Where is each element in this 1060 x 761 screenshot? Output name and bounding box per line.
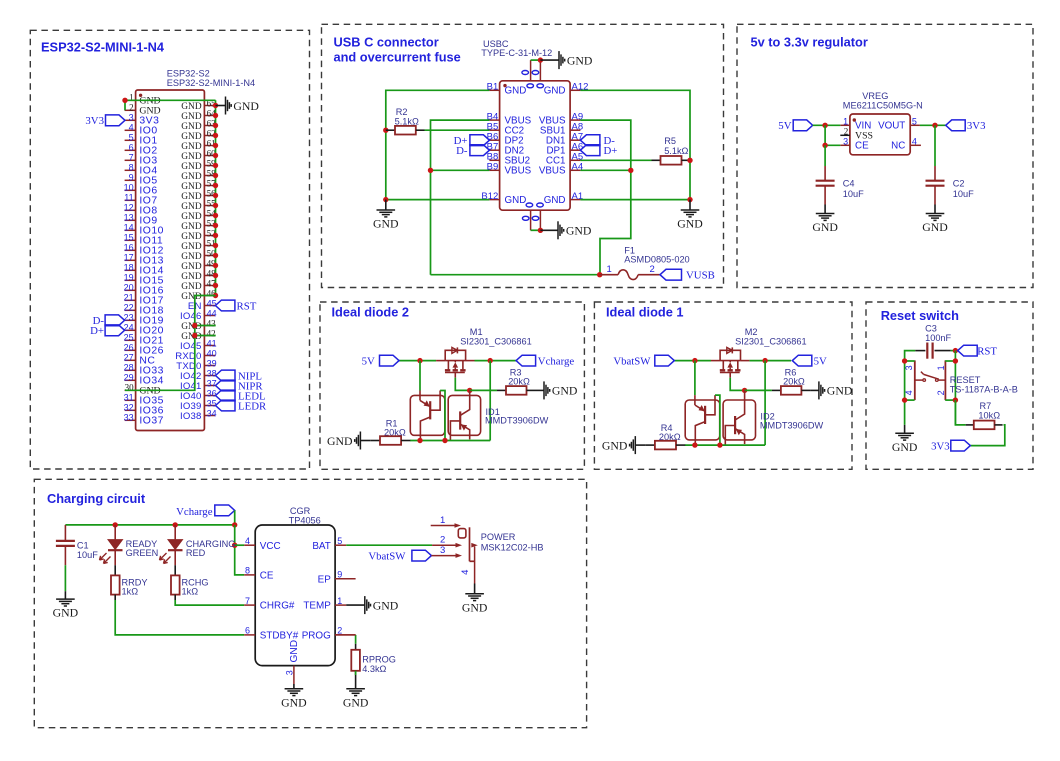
transistor Q left PNP [694,395,696,405]
ESP32 pin 12 IO8 [125,209,136,211]
svg-text:GND: GND [181,122,202,132]
svg-text:32: 32 [124,403,134,413]
net flag NIPR at pin37 [216,380,236,391]
ESP32 pin 56 GND [204,195,215,197]
svg-text:GND: GND [181,242,202,252]
svg-text:ASMD0805-020: ASMD0805-020 [624,255,689,265]
wire C3 left to left rail [905,351,916,425]
power flag 5V ideal diode 2 [380,355,400,366]
junction GND pin 64 [213,113,218,118]
USB shield pin top [530,60,532,81]
ESP32 pin 10 IO6 [125,189,136,191]
svg-text:Ideal diode 1: Ideal diode 1 [606,305,684,320]
net flag Vcharge ideal diode 2 [516,355,536,366]
ESP32 pin 57 GND [204,185,215,187]
svg-text:10uF: 10uF [77,550,98,560]
svg-text:2: 2 [129,103,134,113]
ground symbol under switch [474,584,476,594]
svg-text:4: 4 [912,136,917,146]
svg-text:38: 38 [207,369,217,379]
junction GND pin 62 [213,133,218,138]
svg-text:D+: D+ [604,145,618,157]
svg-text:8: 8 [129,163,134,173]
svg-text:39: 39 [207,359,217,369]
svg-text:GND: GND [462,600,488,614]
svg-text:40: 40 [207,349,217,359]
svg-text:5: 5 [129,133,134,143]
ESP32 pin 42 GND [204,335,215,337]
wire B1 to left GND rail [386,90,490,199]
ESP32 pin 21 IO17 [125,299,136,301]
net flag D- at pin23 [105,315,125,326]
svg-text:ESP32-S2-MINI-1-N4: ESP32-S2-MINI-1-N4 [167,78,255,88]
svg-text:7: 7 [129,153,134,163]
svg-text:5V: 5V [814,356,827,368]
ESP32 pin 63 GND [204,125,215,127]
resistor R2 body [386,129,395,131]
svg-text:GND: GND [343,695,369,709]
svg-text:IO37: IO37 [139,416,164,427]
svg-text:GND: GND [181,182,202,192]
svg-text:9: 9 [129,173,134,183]
junction VIN [822,123,827,128]
junction left rail B12 [383,197,388,202]
wire drain rail [749,360,791,362]
svg-text:44: 44 [207,309,217,319]
wire A5 CC1 to R5 [580,159,651,161]
svg-text:GND: GND [281,695,307,709]
svg-text:22: 22 [124,303,134,313]
net flag D+ at B6 [470,135,490,146]
junction GND pin 47 [213,283,218,288]
svg-text:GND: GND [181,192,202,202]
ESP32 pin 34 IO38 [204,415,215,417]
power flag 5V regulator input [793,120,813,131]
wire gate to R3 [470,389,497,391]
svg-text:29: 29 [124,373,134,383]
net flag NIPL at pin38 [216,370,236,381]
svg-text:3V3: 3V3 [967,120,986,132]
svg-text:RST: RST [237,300,257,312]
wire 5V to VIN [813,124,841,126]
svg-text:3: 3 [129,113,134,123]
ESP32 pin 8 IO4 [125,169,136,171]
svg-text:GND: GND [566,224,592,238]
ground symbol R3 [536,389,545,391]
svg-text:5v to 3.3v regulator: 5v to 3.3v regulator [751,35,868,50]
wire VBUS rails to fuse F1 [431,274,600,276]
junction shield top [538,57,543,62]
ESP32 pin 30 GND [125,389,136,391]
USB pin B5 CC2 [489,129,499,131]
wire gate to R6 [745,389,772,391]
svg-text:TS-1187A-B-A-B: TS-1187A-B-A-B [950,385,1018,395]
svg-text:4: 4 [904,390,914,395]
wire PROG to RPROG [355,635,357,644]
svg-text:1kΩ: 1kΩ [182,587,199,597]
svg-text:GREEN: GREEN [126,548,159,558]
junction gate node [742,388,747,393]
ESP32 pin 40 RXD0 [204,355,215,357]
wire C1 to GND [64,565,66,591]
svg-text:TP4056: TP4056 [289,516,321,526]
ESP32 pin 19 IO15 [125,279,136,281]
svg-text:Vcharge: Vcharge [538,356,575,368]
junction GND pin 48 [213,273,218,278]
wire A1 to right GND rail [580,199,690,201]
transistor Q right PNP [460,390,470,415]
junction R5 to GND rail [687,158,692,163]
wire GND rail to inner column [125,296,216,391]
ground symbol USB left rail [385,200,387,210]
TP4056 pin 5 BAT [335,544,346,546]
USB pin A9 VBUS [570,119,580,121]
power flag 3V3 at pin3 [106,115,126,126]
svg-text:GND: GND [373,217,399,231]
ESP32 pin 46 GND [204,295,215,297]
junction rail LED2 [173,522,178,527]
svg-text:4: 4 [245,536,250,546]
svg-text:USB C connector: USB C connector [334,35,439,50]
svg-text:34: 34 [207,409,217,419]
wire left base to mid rail [715,395,720,445]
TP4056 pin 7 CHRG# [244,604,255,606]
svg-text:GND: GND [567,53,593,67]
ESP32 pin 55 GND [204,205,215,207]
ESP32 pin 17 IO13 [125,259,136,261]
svg-text:C3: C3 [925,324,937,334]
svg-text:GND: GND [373,598,399,612]
svg-text:4.3kΩ: 4.3kΩ [362,664,386,674]
svg-text:and overcurrent fuse: and overcurrent fuse [334,50,461,65]
svg-text:15: 15 [124,233,134,243]
junction right VBUS rail A4 [628,168,633,173]
USB pin A8 SBU1 [570,129,580,131]
ESP32 pin 3 3V3 [125,119,136,121]
ESP32 pin 41 IO45 [204,345,215,347]
ESP32 pin 28 IO33 [125,369,136,371]
svg-text:GND: GND [181,172,202,182]
svg-text:ESP32-S2-MINI-1-N4: ESP32-S2-MINI-1-N4 [41,40,165,55]
ESP32 pin 14 IO10 [125,229,136,231]
svg-text:MMDT3906DW: MMDT3906DW [485,416,549,426]
USB pin A12 GND [570,89,580,91]
regulator pin 3 CE [840,144,850,146]
svg-text:GND: GND [233,99,259,113]
svg-text:2: 2 [844,126,849,136]
transistor Q left PNP [419,391,421,401]
wire pin1-pin2 GND tie [125,100,216,110]
switch body [469,527,471,561]
svg-text:45: 45 [207,299,217,309]
svg-text:GND: GND [602,438,628,452]
ESP32 pin 24 IO20 [125,329,136,331]
ground symbol USB shield bottom [540,229,558,231]
wire stub pin42 [195,335,216,337]
svg-text:31: 31 [124,393,134,403]
ground symbol under RPROG [355,679,357,689]
ESP32 pin 54 GND [204,215,215,217]
ESP32 pin 53 GND [204,225,215,227]
ESP32 pin 26 IO26 [125,349,136,351]
svg-text:RESET: RESET [950,375,981,385]
wire source rail [399,360,436,362]
svg-text:100nF: 100nF [925,333,951,343]
svg-text:VUSB: VUSB [686,270,715,282]
section box Reset switch [866,302,1033,469]
ESP32 pin 22 IO18 [125,309,136,311]
junction left VBUS rail B9 [428,168,433,173]
junction GND pin 50 [213,253,218,258]
ESP32 pin 20 IO16 [125,289,136,291]
ESP32 pin 58 GND [204,175,215,177]
LED READY emission arrows [100,553,107,560]
USB pin B7 DN2 [489,149,499,151]
svg-text:GND: GND [181,132,202,142]
TP4056 pin 8 CE [244,574,255,576]
junction left [417,358,422,363]
junction GND pin 53 [213,223,218,228]
svg-text:3: 3 [440,545,445,556]
section box USB C connector and overcurrent fuse [322,24,724,287]
svg-text:6: 6 [129,143,134,153]
wire RRDY to STDBY# [115,600,244,635]
svg-text:GND: GND [181,272,202,282]
wire left base to mid rail [440,391,445,441]
svg-text:43: 43 [207,319,217,329]
wire VOUT rail down to C2 [934,125,936,166]
svg-text:19: 19 [124,273,134,283]
wire Vcharge top rail [65,524,234,526]
junction pin43 [192,323,197,328]
wire right rail to R7 [955,400,965,425]
svg-text:1: 1 [843,116,848,126]
ground symbol USB shield top [540,59,559,61]
svg-text:GND: GND [181,322,202,332]
svg-text:GND: GND [327,434,353,448]
junction GND pin 63 [213,123,218,128]
svg-text:R5: R5 [664,136,676,146]
svg-text:Charging circuit: Charging circuit [47,491,146,506]
ESP32 pin 7 IO3 [125,159,136,161]
junction RST node [953,348,958,353]
ground symbol under C1 [64,591,66,599]
ground symbol ESP32 top right GND [216,105,226,107]
svg-text:GND: GND [181,282,202,292]
junction GND pin 56 [213,193,218,198]
svg-text:4: 4 [129,123,134,133]
ESP32 pin 27 NC [125,359,136,361]
net flag D- at A7 [580,135,600,146]
TP4056 pin 4 VCC [244,544,255,546]
svg-text:GND: GND [827,384,853,398]
ESP32 pin 65 GND [204,105,215,107]
TP4056 pin 1 TEMP [335,604,346,606]
svg-text:D+: D+ [90,325,104,337]
ESP32 pin 16 IO12 [125,249,136,251]
svg-text:2: 2 [440,535,445,546]
ESP32 pin 11 IO7 [125,199,136,201]
svg-text:GND: GND [181,252,202,262]
svg-text:27: 27 [124,353,134,363]
junction bottom mid [442,438,447,443]
USB pin B12 GND [489,199,499,201]
ESP32 pin 45 EN [204,305,215,307]
ESP32 pin 36 IO40 [204,395,215,397]
junction GND pin 52 [213,233,218,238]
svg-text:10uF: 10uF [953,189,974,199]
svg-text:GND: GND [181,102,202,112]
svg-text:12: 12 [124,203,134,213]
svg-text:20kΩ: 20kΩ [783,376,805,386]
wire bottom rail [685,444,765,446]
wire Vcharge down to rail [234,510,236,525]
svg-text:GND: GND [892,440,918,454]
section box Charging circuit [34,479,586,727]
ground symbol under C4 [824,205,826,214]
ground symbol TEMP [346,604,365,606]
svg-text:GND: GND [544,86,566,97]
svg-text:GND: GND [289,640,300,663]
svg-text:VREG: VREG [862,91,888,101]
section box Ideal diode 1 [594,302,852,469]
junction GND pin 46 [213,293,218,298]
svg-text:14: 14 [124,223,134,233]
wire A4 VBUS tap [580,169,630,171]
svg-text:10uF: 10uF [843,189,864,199]
ESP32 pin 18 IO14 [125,269,136,271]
svg-text:GND: GND [505,86,527,97]
ESP32 pin 37 IO41 [204,385,215,387]
ESP32 pin 39 TXD0 [204,365,215,367]
wire R7 to 3V3 [970,425,1005,446]
svg-text:VBUS: VBUS [539,166,566,177]
junction VOUT [932,123,937,128]
ground symbol reset switch [904,425,906,433]
wire left vertical emitter feed [694,361,696,396]
svg-text:5.1kΩ: 5.1kΩ [395,116,419,126]
ESP32 pin 35 IO39 [204,405,215,407]
ESP32 pin 9 IO5 [125,179,136,181]
ground symbol under TP4056 [293,684,295,689]
svg-text:3: 3 [843,136,848,146]
svg-text:10: 10 [124,183,134,193]
wire RST down right rail [954,351,956,425]
junction GND pin 55 [213,203,218,208]
ground symbol R4 [635,444,645,446]
ESP32 pin 64 GND [204,115,215,117]
TP4056 pin 6 STDBY# [244,634,255,636]
wire VOUT to 3V3 [920,124,946,126]
svg-text:GND: GND [505,195,527,206]
wire left vertical emitter feed [419,361,421,391]
svg-text:42: 42 [207,329,216,339]
svg-text:C4: C4 [843,179,855,189]
svg-text:Ideal diode 2: Ideal diode 2 [332,305,410,320]
USB shield pads top [522,71,529,75]
svg-text:GND: GND [181,202,202,212]
junction rail C1 LED1 [113,522,118,527]
ESP32 pin 25 IO21 [125,339,136,341]
wire stub pin43 [195,325,216,327]
ESP32 pin 62 GND [204,135,215,137]
wire drain rail [475,360,517,362]
section box Ideal diode 2 [320,302,584,469]
ground symbol USB right rail [689,200,691,210]
ESP32 pin 33 IO37 [125,419,136,421]
svg-text:GND: GND [181,162,202,172]
ESP32 pin 15 IO11 [125,239,136,241]
wire gate down [730,378,744,391]
TP4056 pin 9 EP [335,578,356,580]
ESP32 pin 4 IO0 [125,129,136,131]
svg-text:9: 9 [337,570,342,580]
ESP32 pin 52 GND [204,235,215,237]
svg-text:5: 5 [337,536,342,546]
svg-text:R7: R7 [980,401,992,411]
junction pin42 [192,333,197,338]
junction GND pin 49 [213,263,218,268]
svg-text:26: 26 [124,343,134,353]
svg-text:2: 2 [650,264,655,275]
svg-text:1: 1 [440,515,445,526]
transistor pair boxes MMDT3906DW [685,400,720,440]
svg-text:8: 8 [245,566,250,576]
svg-text:GND: GND [53,606,79,620]
ESP32 pin 50 GND [204,255,215,257]
net flag D+ at pin24 [105,325,125,336]
section box ESP32-S2-MINI-1-N4 [30,30,309,469]
svg-text:6: 6 [245,626,250,636]
net flag LEDL at pin36 [216,390,236,401]
svg-text:GND: GND [181,262,202,272]
junction right [488,358,493,363]
svg-text:3V3: 3V3 [931,440,950,452]
svg-text:TYPE-C-31-M-12: TYPE-C-31-M-12 [481,48,552,58]
ESP32 pin 38 IO42 [204,375,215,377]
junction GND pin 51 [213,243,218,248]
svg-text:POWER: POWER [481,532,516,542]
svg-text:4: 4 [460,570,471,575]
svg-text:24: 24 [124,323,134,333]
wire gate down [455,378,469,391]
junction GND pin 57 [213,183,218,188]
svg-text:21: 21 [124,293,134,303]
wire VIN rail down to C4 [824,145,826,166]
LED CHARGING emission arrows [160,553,167,560]
wire B4 VBUS to left VBUS rail [431,120,490,275]
svg-text:28: 28 [124,363,134,373]
svg-text:BAT: BAT [312,541,330,552]
svg-text:RST: RST [977,346,997,358]
svg-text:CHRG#: CHRG# [260,601,295,612]
junction right rail A1 [687,197,692,202]
transistor pair boxes MMDT3906DW [410,395,445,435]
svg-text:CE: CE [260,571,274,582]
wire B9 VBUS tap [431,169,490,171]
svg-text:SI2301_C306861: SI2301_C306861 [735,336,807,346]
svg-text:18: 18 [124,263,134,273]
svg-text:20: 20 [124,283,134,293]
wire VIN rail to CE [825,125,840,145]
junction gate node [467,388,472,393]
junction left rail pin4 [902,397,907,402]
svg-text:IO38: IO38 [180,411,202,422]
svg-text:D-: D- [456,145,468,157]
wire bottom rail [410,440,490,442]
svg-text:10kΩ: 10kΩ [978,411,1000,421]
regulator pin 2 VSS [840,134,850,136]
